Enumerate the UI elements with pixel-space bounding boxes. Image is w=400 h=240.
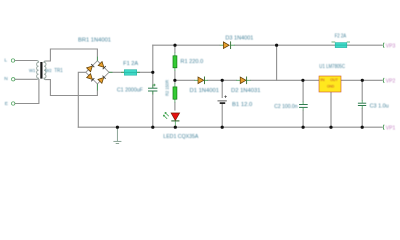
svg-text:VP2: VP2 [386, 79, 396, 85]
svg-text:LED1 CQX35A: LED1 CQX35A [163, 134, 198, 140]
svg-text:F1 2A: F1 2A [123, 61, 138, 67]
svg-text:W1: W1 [29, 68, 36, 73]
svg-text:C2 100.0n: C2 100.0n [274, 104, 297, 110]
svg-text:OUT: OUT [330, 77, 338, 82]
svg-text:GND: GND [327, 83, 334, 88]
svg-text:R2 150R: R2 150R [165, 79, 170, 96]
svg-text:TR1: TR1 [54, 68, 63, 74]
svg-text:IN: IN [320, 77, 324, 82]
svg-text:W2: W2 [45, 68, 52, 73]
svg-text:N: N [4, 76, 8, 82]
svg-text:C3 1.0u: C3 1.0u [370, 103, 389, 109]
svg-text:E: E [5, 101, 8, 107]
svg-text:F2 2A: F2 2A [335, 33, 347, 39]
svg-text:C1 2000uF: C1 2000uF [117, 87, 144, 93]
svg-text:BR1 1N4001: BR1 1N4001 [78, 37, 111, 43]
svg-text:VP3: VP3 [386, 43, 396, 49]
svg-text:VP1: VP1 [386, 125, 396, 131]
svg-text:R1 220.0: R1 220.0 [180, 59, 203, 65]
svg-text:U1 LM7805C: U1 LM7805C [319, 64, 345, 70]
svg-text:D3 1N4001: D3 1N4001 [225, 35, 253, 41]
svg-text:B1 12.0: B1 12.0 [232, 102, 252, 108]
svg-text:D1 1N4001: D1 1N4001 [190, 88, 220, 94]
svg-text:D2 1N4031: D2 1N4031 [231, 88, 261, 94]
svg-text:L: L [4, 57, 7, 63]
